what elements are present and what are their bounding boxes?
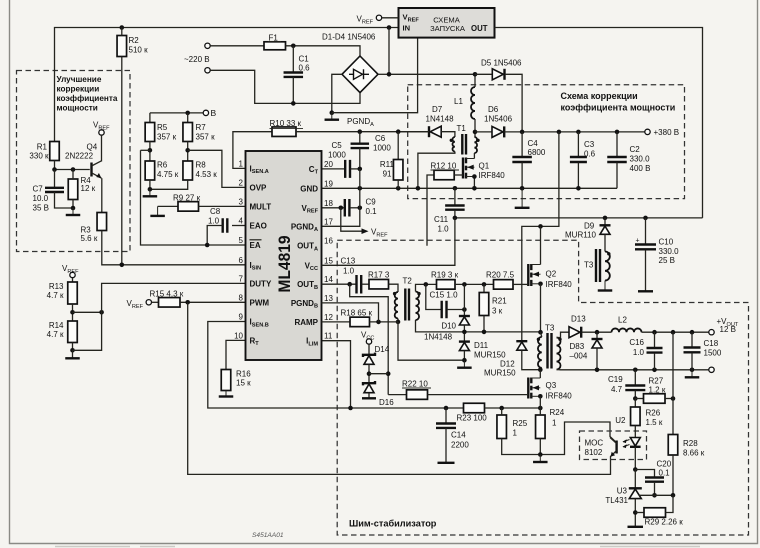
wire: current sense node [485,407,541,409]
wire [158,205,178,207]
terminal +380 В [645,129,650,134]
svg-text:C7: C7 [33,185,44,194]
node [148,148,153,153]
node: L1 top [473,72,478,77]
svg-text:R29 2.26 к: R29 2.26 к [645,518,684,527]
wire [596,348,598,370]
wire: R10 to D7/R11/C6 node [296,131,429,133]
svg-text:R15 4.3 к: R15 4.3 к [150,290,184,299]
svg-text:D12: D12 [500,360,515,369]
svg-text:C5: C5 [332,141,343,150]
svg-text:коэффициента мощности: коэффициента мощности [561,103,676,113]
node [387,72,392,77]
node [416,186,421,191]
wire [370,321,399,323]
node [643,216,648,221]
capacitor C9 [345,199,350,217]
resistor R8 [183,161,193,180]
svg-text:коэффициента: коэффициента [57,94,118,103]
node: I_SIN junction [120,263,125,268]
scan artifact bottom edge [55,546,700,548]
svg-text:–004: –004 [570,352,588,361]
svg-text:1: 1 [552,419,557,428]
svg-text:5.6 к: 5.6 к [81,234,98,243]
wire: T3 primary bottom to Q3 drain [539,370,541,378]
node [348,406,353,411]
node [690,368,695,373]
svg-text:25 В: 25 В [659,256,675,265]
capacitor C2 [616,132,618,157]
node [462,330,467,335]
svg-text:D7: D7 [432,105,443,114]
svg-text:1500: 1500 [704,349,722,358]
wire [210,45,264,47]
wire: top rail from R1 to startup box [55,28,399,142]
node [396,186,401,191]
wire [73,311,102,313]
wire: bridge positive [378,73,389,75]
resistor R23 [464,403,485,413]
node [52,167,57,172]
node [652,368,657,373]
wire: I_LIM line (pin 11) [322,341,351,408]
optocoupler transistor [615,441,617,454]
node [358,186,363,191]
capacitor C3 [577,132,579,157]
node [453,186,458,191]
resistor R21 [483,284,485,292]
node [71,206,76,211]
wire [382,17,399,19]
wire: T2 primary bottom to D11 ground node [398,322,464,360]
node [603,216,608,221]
wire: V_REF line (pin 18) [322,207,345,209]
capacitor C11 [454,188,456,205]
svg-text:B: B [211,108,217,118]
svg-text:15: 15 [324,256,333,265]
wire [72,170,74,180]
svg-text:R19 3 к: R19 3 к [431,271,459,280]
svg-text:D9: D9 [584,222,595,231]
ground [691,370,693,378]
wire [634,499,636,526]
wire: Q2 drain [540,226,542,264]
svg-text:R23 100: R23 100 [457,414,488,423]
svg-text:6800: 6800 [528,148,546,157]
node [652,493,657,498]
transistor Q3 IRF840 [527,378,529,399]
ground [539,455,541,463]
node [520,186,525,191]
wire: T2 secondary bottom rail [416,320,541,332]
svg-text:12: 12 [324,313,333,322]
svg-text:3 к: 3 к [492,307,503,316]
wire: R25/R24 bottoms and optocoupler collector [502,422,617,455]
svg-text:мощности: мощности [57,104,98,113]
wire [121,28,123,36]
node [576,186,581,191]
wire: I_SEN.B line (pin 9) [208,322,464,409]
node [633,467,638,472]
TL431 ref wire [639,494,674,496]
node [538,330,543,335]
resistor R17 [369,279,389,289]
svg-text:C20: C20 [657,460,672,469]
svg-text:R18 65 к: R18 65 к [341,309,373,318]
node [538,224,543,229]
inductor L2 [612,328,642,332]
svg-text:L1: L1 [454,97,463,106]
wire: AC2 to bridge [210,70,360,103]
svg-text:10: 10 [234,331,243,340]
svg-text:D11: D11 [474,341,489,350]
svg-text:C8: C8 [210,207,221,216]
node: C1 bottom [291,101,296,106]
wire: R2 bottom to I_SIN node [121,57,123,265]
inductor L1 [471,87,475,119]
svg-text:1N5406: 1N5406 [484,115,513,124]
svg-text:4.75 к: 4.75 к [157,170,179,179]
svg-text:91: 91 [383,170,392,179]
node [482,282,487,287]
wire: I_SEN.A (pin 1) to R10 [233,132,272,169]
svg-text:T2: T2 [403,277,413,286]
wire [634,470,636,489]
node: R15/PWM junction [185,300,190,305]
svg-text:4.7 к: 4.7 к [47,330,64,339]
node [396,129,401,134]
svg-text:MUR110: MUR110 [565,231,597,240]
wire [541,332,542,337]
svg-text:330.0: 330.0 [659,247,680,256]
svg-text:C3: C3 [584,140,595,149]
wire: T1 to Q1 drain [473,153,475,159]
svg-text:C1: C1 [299,55,310,64]
svg-text:510 к: 510 к [129,46,149,55]
capacitor C13 [357,275,362,294]
polarity dot [450,139,453,142]
svg-text:14: 14 [324,275,333,284]
svg-text:8.66 к: 8.66 к [683,449,705,458]
svg-text:~220 В: ~220 В [184,55,210,64]
ground [225,391,227,397]
svg-text:2200: 2200 [451,441,469,450]
svg-text:C16: C16 [629,338,644,347]
wire: L1 to T1/D6 node [474,119,476,137]
svg-text:C9: C9 [366,198,377,207]
wire [666,495,674,512]
svg-text:Q4: Q4 [87,143,98,152]
capacitor C20 [635,470,654,478]
node [424,282,429,287]
ground [157,206,159,216]
svg-text:C13: C13 [341,257,356,266]
node: bridge+ tap junction [387,25,392,30]
node [148,187,153,192]
svg-text:6: 6 [239,256,244,265]
wire: R7/R8 to OVP (pin 2) [188,150,246,187]
svg-text:C6: C6 [375,134,386,143]
wire [540,368,542,370]
node [70,348,75,353]
wire: PGND_B line (pin 13) [322,303,379,322]
wire [672,399,674,435]
svg-text:U2: U2 [615,416,626,425]
svg-text:R13: R13 [49,282,64,291]
wire [359,169,361,188]
node: C14 junction [444,406,449,411]
resistor R13 [68,282,78,304]
svg-text:D83: D83 [570,342,585,351]
wire [368,365,370,383]
svg-text:R28: R28 [683,439,698,448]
wire: +V_OUT rail [642,331,709,333]
wire [150,180,188,189]
svg-text:MUR150: MUR150 [474,351,506,360]
transistor Q1 IRF840 [462,158,464,179]
diode D6 1N5406 [475,131,492,133]
svg-text:0.6: 0.6 [584,150,596,159]
wire [463,284,465,316]
svg-text:R27: R27 [649,377,664,386]
resistor R4 [68,179,78,200]
terminal ~220V upper [205,43,210,48]
svg-text:0.1: 0.1 [366,207,378,216]
svg-text:16: 16 [324,237,333,246]
svg-text:IRF840: IRF840 [546,392,573,401]
wire: rectified line node [389,28,475,75]
wire [72,304,74,321]
svg-text:1: 1 [239,159,244,168]
svg-text:ЗАПУСКА: ЗАПУСКА [430,24,466,33]
svg-text:IRF840: IRF840 [546,280,573,289]
wire: R12 to Q1 gate [454,174,463,176]
svg-text:20: 20 [324,160,333,169]
svg-text:коррекции: коррекции [57,85,100,94]
svg-text:1.2 к: 1.2 к [649,386,666,395]
ground [149,189,151,196]
svg-text:GND: GND [300,184,318,193]
svg-text:5: 5 [239,236,244,245]
svg-text:400 В: 400 В [630,164,651,173]
wire: PGND_A to startup circuit ground pin [332,38,418,113]
svg-text:4.7 к: 4.7 к [47,291,64,300]
svg-text:1N4148: 1N4148 [426,115,455,124]
svg-text:R10 33 к: R10 33 к [270,119,302,128]
svg-text:19: 19 [324,179,333,188]
wire [672,455,674,495]
node [367,371,372,376]
node [453,216,458,221]
svg-text:D10: D10 [441,322,456,331]
svg-text:11: 11 [324,332,333,341]
svg-text:4.7: 4.7 [611,385,623,394]
bridge rectifier D1-D4 [342,56,378,93]
wire: R_T line (pin 10) [226,340,246,369]
node [71,167,76,172]
wire [463,325,465,341]
wire: R17 to T2 primary [389,284,399,292]
svg-text:C18: C18 [704,339,719,348]
resistor R1 [50,142,60,161]
ground [604,281,606,291]
wire [398,131,429,133]
node [538,452,543,457]
diode D12 MUR150 [516,340,527,342]
resistor R15 [159,298,181,308]
resistor R29 [635,512,644,514]
svg-text:12 к: 12 к [81,184,96,193]
wire: R20 to Q2 gate [513,283,528,285]
svg-text:1.5 к: 1.5 к [646,418,663,427]
svg-text:R6: R6 [157,161,168,170]
wire: Vcc supply rail [455,217,703,219]
transistor Q4 2N2222 [101,135,103,161]
resistor R19 [437,280,456,290]
svg-text:R7: R7 [196,123,207,132]
transformer T3 auxiliary winding [596,249,600,282]
svg-text:0.6: 0.6 [299,64,311,73]
svg-text:17: 17 [324,217,333,226]
wire: +V to R27/R28 [672,332,674,398]
svg-text:IRF840: IRF840 [479,171,506,180]
svg-text:R2: R2 [129,36,140,45]
wire [463,351,465,360]
capacitor C18 [691,332,693,347]
node [70,310,75,315]
wire: T3 secondary top [557,332,570,337]
ground [72,208,74,215]
node [358,206,363,211]
wire: Vcc rail to V_CC pin 15 [322,218,455,265]
node: C1 top [291,44,296,49]
svg-text:D13: D13 [571,315,586,324]
svg-text:1.0: 1.0 [208,217,220,226]
node [347,282,352,287]
node [185,148,190,153]
polarity dot [558,338,561,341]
wire: Q4 base net [55,169,90,171]
svg-text:DUTY: DUTY [250,279,272,288]
wire [72,200,74,209]
wire: OUT_B line (pin 14) [322,283,357,285]
dashed box: Шим-стабилизатор [337,240,748,535]
wire: T2 primary bottom [397,319,399,322]
wire: output return rail [557,369,709,371]
svg-text:4.53 к: 4.53 к [196,170,218,179]
transistor Q2 IRF840 [527,264,529,286]
resistor R27 [635,398,643,400]
svg-text:R20 7.5: R20 7.5 [486,271,515,280]
polarity dot [476,139,479,142]
resistor R14 [68,321,78,343]
svg-text:Схема коррекции: Схема коррекции [561,91,638,101]
wire [539,439,541,455]
node [358,129,363,134]
wire: EA line (pin 5) [141,150,246,245]
svg-text:C15 1.0: C15 1.0 [430,290,459,299]
polarity dot [417,292,420,295]
wire: RAMP line (pin 12) [322,321,351,323]
wire: EAO line (pin 4) [232,225,246,227]
wire [54,161,56,170]
wire [539,408,541,415]
wire: D12 to T3 primary bottom [522,350,541,369]
capacitor C1 [292,46,294,72]
svg-text:15 к: 15 к [236,379,251,388]
optocoupler LED [634,426,636,438]
node [472,174,477,179]
node [595,368,600,373]
node [633,368,638,373]
wire [149,180,151,189]
node [557,130,562,135]
svg-text:C2: C2 [630,145,641,154]
polarity dot [537,338,540,341]
wire [152,301,159,303]
svg-text:1: 1 [513,429,518,438]
svg-text:1.0: 1.0 [633,348,645,357]
svg-text:D1-D4 1N5406: D1-D4 1N5406 [322,33,376,42]
wire [187,142,189,162]
resistor R24 [536,415,546,439]
svg-text:C4: C4 [528,139,539,148]
svg-text:C11: C11 [434,215,449,224]
V_REF arrow tap [341,208,366,231]
wire: PWM feedback from optocoupler emitter [188,302,611,474]
svg-text:MULT: MULT [250,202,272,211]
svg-text:D16: D16 [379,398,394,407]
svg-text:18: 18 [324,199,333,208]
svg-text:TL431: TL431 [605,496,628,505]
svg-text:R26: R26 [646,409,661,418]
svg-text:+380 В: +380 В [654,128,680,137]
svg-text:1.0: 1.0 [438,225,450,234]
wire [455,283,494,285]
node [576,130,581,135]
svg-text:R21: R21 [492,297,507,306]
svg-text:357 к: 357 к [196,133,216,142]
wire: T2 secondary to R19 [416,284,437,291]
capacitor C14 [445,408,447,423]
svg-text:C19: C19 [608,375,623,384]
svg-text:R22 10: R22 10 [402,380,428,389]
svg-text:R14: R14 [49,321,64,330]
ground [463,360,465,368]
wire: R5/R6 node to EA [141,149,150,151]
node: R2 top junction [120,25,125,30]
svg-text:D14: D14 [375,345,390,354]
svg-text:Шим-стабилизатор: Шим-стабилизатор [349,519,437,529]
capacitor C7 [54,170,56,188]
wire: +380 to Q2 drain [541,132,559,227]
node [462,307,467,312]
svg-text:R5: R5 [157,123,168,132]
svg-text:OVP: OVP [250,183,268,192]
node [185,111,190,116]
node [520,130,525,135]
diode D11 MUR150 [459,340,470,342]
wire: startup OUT to Vcc rail [495,28,703,218]
wire [474,74,476,87]
svg-text:R25: R25 [513,419,528,428]
svg-text:9: 9 [239,313,244,322]
wire [397,132,399,160]
node [652,330,657,335]
node [538,406,543,411]
svg-text:12 В: 12 В [720,325,736,334]
wire: AC1 to bridge [286,46,361,57]
